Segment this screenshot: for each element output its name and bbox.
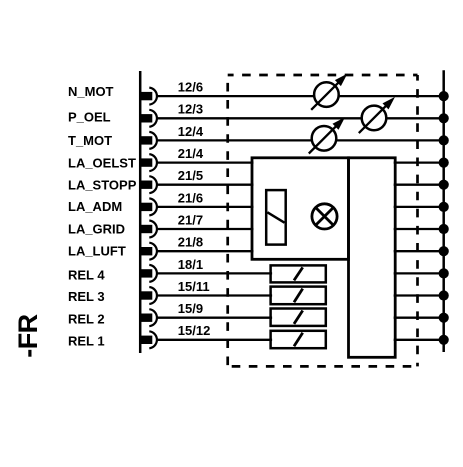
svg-text:LA_GRID: LA_GRID bbox=[68, 221, 125, 236]
junction node 12/3 on right bus bbox=[439, 113, 449, 123]
junction node 21/5 on right bus bbox=[439, 180, 449, 190]
wire REL 3 15/11 bbox=[158, 294, 273, 296]
junction node 12/6 on right bus bbox=[439, 91, 449, 101]
relay K4 actuator slash bbox=[294, 267, 303, 280]
wire LA_GRID 21/7 bbox=[158, 228, 254, 230]
dashed enclosure bottom edge bbox=[228, 365, 418, 368]
relay K2 (REL 2 driver) bbox=[271, 309, 326, 326]
wire stub right of module, net 21/6 bbox=[394, 206, 444, 208]
right vertical bus wire bbox=[442, 70, 445, 352]
wire P_OEL 12/3 bbox=[158, 117, 444, 119]
wire T_MOT 12/4 bbox=[158, 139, 444, 141]
pin X6 LA_ADM bbox=[139, 203, 152, 211]
pin X1 N_MOT bbox=[139, 92, 152, 100]
wire LA_OELST 21/4 bbox=[158, 161, 254, 163]
svg-text:LA_STOPP: LA_STOPP bbox=[68, 178, 137, 193]
dashed enclosure right edge bbox=[416, 75, 419, 366]
pin X11 REL 2 bbox=[139, 314, 152, 322]
svg-text:21/5: 21/5 bbox=[178, 168, 203, 183]
svg-text:12/4: 12/4 bbox=[178, 124, 204, 139]
pin X5 LA_STOPP bbox=[139, 181, 152, 189]
meter P3 (12/4) (adjustable sensor symbol) bbox=[312, 126, 337, 151]
pin X3 T_MOT bbox=[139, 136, 152, 144]
wire stub right of module, net 21/7 bbox=[394, 228, 444, 230]
level sensor element bbox=[266, 190, 286, 245]
svg-text:21/6: 21/6 bbox=[178, 190, 203, 205]
wire N_MOT 12/6 bbox=[158, 95, 444, 97]
wire REL 1 15/12 bbox=[158, 339, 273, 341]
wire stub right of module, net 21/4 bbox=[394, 161, 444, 163]
wire LA_ADM 21/6 bbox=[158, 206, 254, 208]
dashed enclosure (module boundary) top edge bbox=[228, 74, 418, 77]
svg-text:21/4: 21/4 bbox=[178, 146, 204, 161]
junction node 12/4 on right bus bbox=[439, 135, 449, 145]
wire stub right of module, net 15/9 bbox=[394, 317, 444, 319]
relay K3 actuator slash bbox=[294, 289, 303, 303]
svg-text:N_MOT: N_MOT bbox=[68, 84, 114, 99]
svg-text:P_OEL: P_OEL bbox=[68, 110, 111, 125]
junction node 21/7 on right bus bbox=[439, 224, 449, 234]
meter P2 (12/3) (adjustable sensor symbol) bbox=[362, 106, 387, 131]
pin X4 LA_OELST bbox=[139, 158, 152, 166]
svg-text:REL 2: REL 2 bbox=[68, 311, 105, 326]
relay K4 (REL 4 driver) bbox=[271, 265, 326, 282]
wire REL 2 15/9 bbox=[158, 317, 273, 319]
pin X12 REL 1 bbox=[139, 336, 152, 344]
pin X9 REL 4 bbox=[139, 269, 152, 277]
svg-text:12/3: 12/3 bbox=[178, 102, 203, 117]
svg-text:12/6: 12/6 bbox=[178, 80, 203, 95]
svg-text:LA_OELST: LA_OELST bbox=[68, 155, 136, 170]
svg-text:15/12: 15/12 bbox=[178, 323, 211, 338]
relay K2 actuator slash bbox=[294, 311, 303, 324]
relay K1 actuator slash bbox=[294, 333, 303, 346]
svg-text:15/11: 15/11 bbox=[178, 279, 210, 294]
relay K3 (REL 3 driver) bbox=[271, 287, 326, 305]
junction node 15/12 on right bus bbox=[439, 335, 449, 345]
svg-text:REL 1: REL 1 bbox=[68, 333, 105, 348]
indicator lamp H1 bbox=[312, 204, 337, 229]
junction node 21/4 on right bus bbox=[439, 158, 449, 168]
control unit box (left section) bbox=[252, 158, 349, 259]
pin X7 LA_GRID bbox=[139, 225, 152, 233]
svg-text:21/8: 21/8 bbox=[178, 235, 203, 250]
junction node 18/1 on right bus bbox=[439, 268, 449, 278]
svg-text:LA_ADM: LA_ADM bbox=[68, 199, 122, 214]
junction node 21/6 on right bus bbox=[439, 202, 449, 212]
svg-text:T_MOT: T_MOT bbox=[68, 133, 112, 148]
output stage box (tall right section) bbox=[349, 158, 396, 357]
wire stub right of module, net 21/5 bbox=[394, 184, 444, 186]
relay K1 (REL 1 driver) bbox=[271, 331, 326, 348]
level sensor diagonal bbox=[267, 212, 284, 222]
svg-text:LA_LUFT: LA_LUFT bbox=[68, 244, 126, 259]
wire LA_LUFT 21/8 bbox=[158, 250, 254, 252]
left connector bus line bbox=[139, 71, 142, 353]
wire stub right of module, net 18/1 bbox=[394, 272, 444, 274]
junction node 15/11 on right bus bbox=[439, 290, 449, 300]
pin X8 LA_LUFT bbox=[139, 247, 152, 255]
dashed enclosure left edge bbox=[226, 75, 229, 366]
junction node 15/9 on right bus bbox=[439, 313, 449, 323]
wire REL 4 18/1 bbox=[158, 272, 273, 274]
junction node 21/8 on right bus bbox=[439, 246, 449, 256]
svg-text:21/7: 21/7 bbox=[178, 212, 203, 227]
svg-text:-FR: -FR bbox=[13, 314, 43, 357]
svg-text:REL 3: REL 3 bbox=[68, 289, 105, 304]
svg-text:18/1: 18/1 bbox=[178, 257, 203, 272]
wire stub right of module, net 15/12 bbox=[394, 339, 444, 341]
pin X2 P_OEL bbox=[139, 114, 152, 122]
wire stub right of module, net 21/8 bbox=[394, 250, 444, 252]
svg-text:REL 4: REL 4 bbox=[68, 267, 105, 282]
pin X10 REL 3 bbox=[139, 291, 152, 299]
wire stub right of module, net 15/11 bbox=[394, 294, 444, 296]
svg-text:15/9: 15/9 bbox=[178, 301, 203, 316]
wire LA_STOPP 21/5 bbox=[158, 184, 254, 186]
meter P1 (12/6) (adjustable sensor symbol) bbox=[314, 82, 339, 107]
